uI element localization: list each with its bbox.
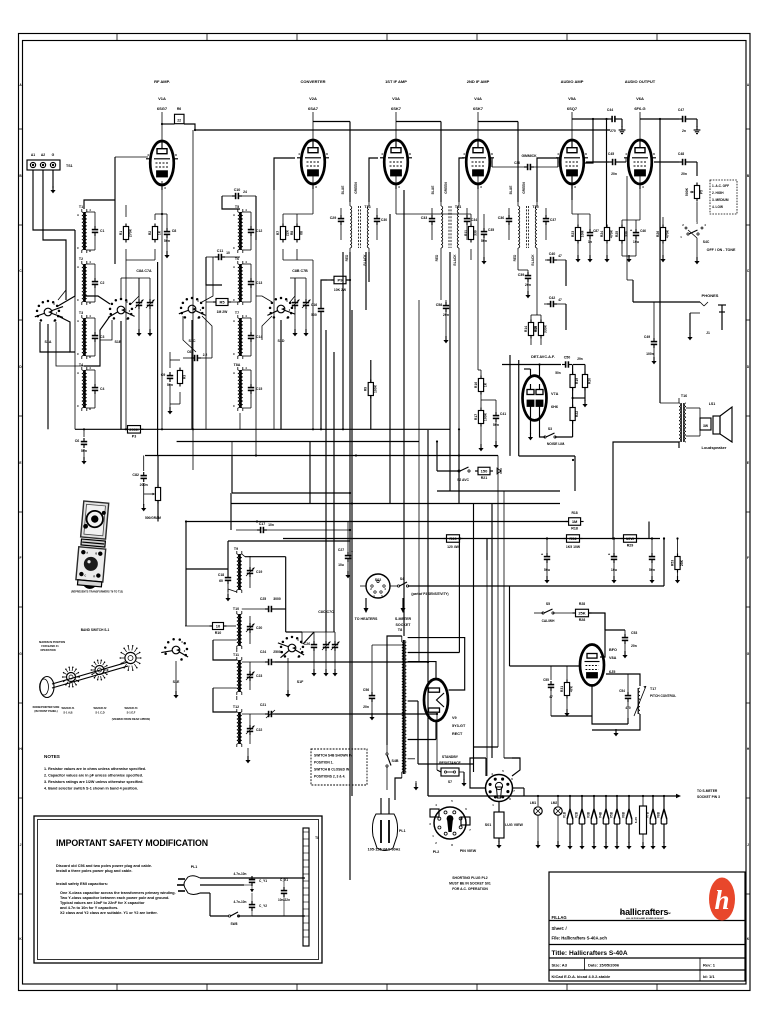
shorting plug PL2 (pin view) bbox=[429, 799, 476, 854]
svg-text:C53: C53 bbox=[631, 631, 637, 635]
svg-text:T5: T5 bbox=[235, 205, 239, 209]
capacitor C61 (filter) bbox=[608, 539, 617, 584]
svg-text:150: 150 bbox=[481, 469, 488, 474]
wire C45 coupling bbox=[619, 158, 626, 162]
svg-text:V6A: V6A bbox=[636, 96, 644, 101]
wire T1 top to grid line bbox=[84, 200, 115, 264]
wire T8 primary legs bbox=[387, 636, 402, 800]
svg-text:C: C bbox=[77, 352, 79, 356]
svg-text:1K: 1K bbox=[484, 382, 488, 387]
svg-text:T11: T11 bbox=[233, 653, 239, 657]
svg-text:BLUE: BLUE bbox=[341, 186, 345, 195]
svg-text:200K: 200K bbox=[129, 427, 139, 432]
svg-text:NOISE LIM.: NOISE LIM. bbox=[547, 442, 565, 446]
svg-text:C12: C12 bbox=[256, 229, 262, 233]
svg-text:PIN VIEW: PIN VIEW bbox=[460, 849, 477, 853]
wire T14 secondary to V4 grid bbox=[459, 158, 464, 202]
wire S1A extra arms bbox=[40, 290, 84, 366]
wire T16 primary bbox=[613, 403, 679, 539]
potentiometer P2 (sensitivity) bbox=[145, 470, 161, 520]
svg-text:A: A bbox=[77, 371, 79, 375]
terminal strip TS1 (antenna terminals A1 A2 G) bbox=[27, 153, 73, 170]
junction dots on B+ bus bbox=[458, 537, 678, 539]
transformer T3 bbox=[77, 311, 91, 359]
resistor R14 bbox=[524, 320, 538, 339]
variable inductor T17 pitch control bbox=[634, 686, 676, 716]
wire T14 down legs bbox=[441, 252, 459, 429]
capacitor C41 bbox=[493, 412, 506, 448]
capacitor C29 (T13 primary) bbox=[330, 208, 344, 240]
svg-text:RED: RED bbox=[435, 254, 439, 261]
transformer T2 bbox=[77, 257, 91, 305]
IF transformer T14 bbox=[431, 182, 461, 266]
ground under T9 bbox=[225, 589, 236, 601]
transformer T8A bbox=[233, 363, 247, 411]
wire V2 plate top route to T13 bbox=[313, 122, 350, 203]
wire S01 connections bbox=[470, 758, 524, 848]
svg-text:5Y3-GT: 5Y3-GT bbox=[452, 724, 466, 728]
svg-text:R8: R8 bbox=[290, 231, 294, 235]
IF transformer T13 bbox=[341, 182, 371, 266]
capacitor C39 bbox=[518, 270, 531, 298]
oscillator coil T9 bbox=[234, 547, 286, 609]
svg-text:BLACK: BLACK bbox=[531, 254, 535, 266]
svg-text:C56: C56 bbox=[363, 688, 369, 692]
svg-text:1M: 1M bbox=[572, 519, 578, 524]
svg-text:R29: R29 bbox=[627, 544, 634, 548]
capacitor C55 bbox=[543, 666, 554, 716]
tube V7A 6H6 detector bbox=[523, 355, 559, 420]
svg-text:R18: R18 bbox=[571, 527, 578, 531]
svg-text:R7: R7 bbox=[276, 231, 280, 235]
standby resistance S7 bbox=[439, 755, 461, 784]
svg-text:GIMMICK: GIMMICK bbox=[521, 154, 537, 158]
svg-text:C14: C14 bbox=[256, 335, 262, 339]
ground S4C bbox=[694, 238, 699, 264]
junction dots on heater bus bbox=[537, 795, 665, 797]
svg-text:Id: 1/1: Id: 1/1 bbox=[703, 974, 715, 979]
resistor R8 bbox=[290, 224, 304, 243]
svg-text:T8: T8 bbox=[398, 628, 402, 632]
resistor R17 bbox=[474, 408, 488, 427]
svg-text:R18: R18 bbox=[571, 511, 577, 515]
capacitor C3 bbox=[87, 318, 105, 356]
svg-text:V2B: V2B bbox=[575, 811, 579, 818]
svg-text:2n: 2n bbox=[682, 129, 686, 133]
svg-text:RED: RED bbox=[513, 254, 517, 261]
wire C10 left leg bbox=[222, 196, 256, 240]
trimmer capacitor C22 bbox=[246, 714, 262, 744]
svg-text:C87: C87 bbox=[593, 229, 599, 233]
svg-text:2. HIGH: 2. HIGH bbox=[712, 191, 724, 195]
safety mod transformer bar T8 bbox=[303, 828, 319, 946]
wire V3 cathode bbox=[396, 176, 484, 260]
pictorial drawing of IF transformer assembly bbox=[71, 501, 123, 594]
gimmick capacitor C38 bbox=[492, 154, 558, 170]
capacitor C46 bbox=[622, 228, 646, 263]
wire BFO tank bbox=[592, 674, 640, 736]
svg-text:C: C bbox=[233, 298, 235, 302]
wire C9/R3 to V1 grid return bbox=[115, 157, 170, 360]
trimmer capacitor C8A bbox=[135, 278, 144, 336]
svg-text:PHONES: PHONES bbox=[702, 293, 719, 298]
resistor R25 bbox=[615, 225, 629, 257]
wire rectifier cathode to B+ riser bbox=[408, 539, 459, 653]
svg-text:T14: T14 bbox=[455, 205, 461, 209]
svg-text:C45: C45 bbox=[608, 152, 614, 156]
capacitor C12 bbox=[243, 212, 263, 250]
wire R2/C8 to cathode bbox=[155, 181, 167, 228]
svg-text:J1: J1 bbox=[706, 331, 710, 335]
svg-text:T1: T1 bbox=[79, 205, 83, 209]
wire V9 filament winding bbox=[408, 722, 436, 740]
svg-text:TO S-METER: TO S-METER bbox=[697, 789, 718, 793]
svg-text:C20: C20 bbox=[256, 626, 262, 630]
svg-text:F: F bbox=[747, 556, 749, 560]
svg-text:J: J bbox=[20, 843, 22, 847]
wire V6 plate to output transformer bbox=[659, 118, 661, 403]
wire R10 to bus bbox=[185, 522, 236, 627]
svg-text:C15: C15 bbox=[256, 387, 262, 391]
svg-text:R53: R53 bbox=[670, 560, 674, 566]
svg-text:C42: C42 bbox=[549, 296, 556, 300]
capacitor C82 bbox=[132, 456, 147, 512]
svg-text:A: A bbox=[233, 371, 235, 375]
svg-text:WAFER #1: WAFER #1 bbox=[62, 706, 76, 710]
svg-text:3000: 3000 bbox=[273, 597, 281, 601]
label C8B C7B bbox=[292, 269, 308, 273]
phones jack J1 bbox=[700, 293, 726, 335]
capacitor C58 bbox=[436, 300, 449, 343]
svg-text:Typical values are 10nF to 22n: Typical values are 10nF to 22nF for X ca… bbox=[60, 901, 145, 905]
svg-text:2500: 2500 bbox=[273, 650, 281, 654]
svg-text:E: E bbox=[19, 461, 21, 465]
svg-text:6.3V: 6.3V bbox=[634, 817, 638, 823]
rotary switch S1A bbox=[35, 300, 63, 344]
svg-text:C18: C18 bbox=[218, 573, 224, 577]
svg-text:T6: T6 bbox=[235, 257, 239, 261]
wire det divider bbox=[572, 388, 586, 407]
trimmer capacitor C23 bbox=[246, 662, 262, 690]
wire R28 to C53/V8 bbox=[589, 613, 626, 630]
svg-text:SWITCH B CLOSED IN: SWITCH B CLOSED IN bbox=[314, 768, 350, 772]
mains plug PL1 bbox=[368, 798, 406, 852]
wire V8 plate bbox=[600, 613, 605, 657]
capacitor C2 bbox=[87, 264, 105, 302]
svg-text:S1F: S1F bbox=[297, 680, 304, 684]
svg-text:GREEN: GREEN bbox=[522, 182, 526, 194]
svg-text:V9: V9 bbox=[452, 716, 457, 720]
svg-text:C46: C46 bbox=[640, 229, 646, 233]
svg-text:R20: R20 bbox=[588, 378, 592, 384]
wire T13 red lead down bbox=[342, 252, 344, 430]
svg-text:3. Resistors ratings are 1/2W: 3. Resistors ratings are 1/2W unless oth… bbox=[44, 780, 143, 784]
wire V9 plate 2 to T8 tap bbox=[408, 662, 436, 679]
capacitor C45 bbox=[608, 152, 619, 176]
wire long verticals to osc caps bbox=[326, 214, 390, 632]
svg-text:BLACK: BLACK bbox=[453, 254, 457, 266]
svg-text:T7: T7 bbox=[235, 311, 239, 315]
svg-text:AUDIO AMP: AUDIO AMP bbox=[561, 79, 584, 84]
ground detector bbox=[528, 412, 533, 440]
svg-text:WAFER #2: WAFER #2 bbox=[94, 706, 108, 710]
output transformer T16 bbox=[679, 394, 696, 448]
svg-text:GREEN: GREEN bbox=[354, 182, 358, 194]
svg-text:C3: C3 bbox=[100, 335, 104, 339]
transformer T1 bbox=[77, 205, 91, 253]
capacitor C13 bbox=[243, 264, 263, 302]
svg-text:KNOB/POINTER SIDE: KNOB/POINTER SIDE bbox=[33, 705, 60, 709]
resistor R5 bbox=[213, 299, 231, 315]
important safety modification box bbox=[34, 816, 322, 963]
potentiometer P3 200K on AVC bus bbox=[125, 426, 144, 439]
svg-text:V7B: V7B bbox=[646, 811, 650, 818]
title block bbox=[549, 872, 745, 981]
svg-text:500K: 500K bbox=[685, 187, 689, 196]
wire detector couplings bbox=[565, 260, 567, 330]
svg-text:File: Hallicrafters S-40A.sch: File: Hallicrafters S-40A.sch bbox=[552, 936, 608, 941]
svg-text:OPERATION: OPERATION bbox=[40, 648, 55, 652]
wire S1B to T-coil column bbox=[84, 296, 110, 366]
capacitor C24 2500 bbox=[242, 650, 428, 665]
svg-text:C41: C41 bbox=[500, 412, 506, 416]
svg-text:Size: A3: Size: A3 bbox=[552, 963, 568, 968]
svg-text:POSITION 1.: POSITION 1. bbox=[314, 761, 334, 765]
svg-text:FILLAG: FILLAG bbox=[552, 915, 567, 920]
wire S01 to lamp bus bbox=[523, 788, 525, 796]
svg-text:inc: inc bbox=[667, 911, 671, 915]
svg-text:TO HEATERS: TO HEATERS bbox=[355, 617, 378, 621]
svg-text:100n: 100n bbox=[646, 352, 654, 356]
svg-text:V7A: V7A bbox=[551, 392, 559, 396]
resistor R29 on B+ bus bbox=[621, 535, 640, 548]
svg-text:SOCKET: SOCKET bbox=[396, 623, 412, 627]
ground T8 centertap bbox=[413, 781, 418, 790]
svg-text:CAL/WH: CAL/WH bbox=[542, 619, 555, 623]
safety mod capacitor C_X1 bbox=[278, 878, 290, 916]
svg-text:2ND IF AMP: 2ND IF AMP bbox=[467, 79, 490, 84]
wire right-side verticals bbox=[627, 176, 649, 539]
svg-text:T3: T3 bbox=[79, 311, 83, 315]
svg-text:FOR A.C. OPERATION: FOR A.C. OPERATION bbox=[452, 887, 488, 891]
svg-text:C54: C54 bbox=[619, 689, 625, 693]
junction dots mid buses bbox=[349, 428, 460, 715]
dial lamp LM2 bbox=[551, 796, 562, 848]
capacitor C9 bbox=[161, 360, 174, 414]
svg-text:R10: R10 bbox=[215, 631, 222, 635]
svg-text:S-1 A,B: S-1 A,B bbox=[63, 711, 72, 715]
svg-text:R5: R5 bbox=[219, 300, 225, 305]
resistor R28 bbox=[573, 602, 592, 622]
dial lamp LM1 bbox=[530, 796, 542, 848]
svg-text:BAND SWITCH S-1: BAND SWITCH S-1 bbox=[81, 628, 110, 632]
svg-text:LM1: LM1 bbox=[530, 801, 537, 805]
capacitor C8 bbox=[164, 228, 177, 258]
rotary switch S1C bbox=[179, 297, 206, 343]
svg-text:h: h bbox=[714, 885, 729, 915]
svg-text:470K: 470K bbox=[610, 229, 614, 238]
svg-text:R31: R31 bbox=[560, 686, 564, 692]
heater V5B bbox=[610, 796, 620, 849]
svg-text:RESISTANCE: RESISTANCE bbox=[439, 761, 461, 765]
resistor R24 bbox=[600, 225, 614, 263]
wire P9 left leg bbox=[321, 280, 327, 290]
transformer T6 bbox=[233, 257, 247, 305]
wire S1D extra arms bbox=[256, 278, 295, 340]
svg-text:T8A: T8A bbox=[234, 363, 241, 367]
svg-text:One X-class capacitor across t: One X-class capacitor across the transfo… bbox=[60, 891, 176, 895]
resistor R6 (plate decoupling) bbox=[175, 107, 185, 124]
svg-text:C: C bbox=[77, 246, 79, 250]
resistor R19 bbox=[570, 365, 579, 391]
svg-text:R26: R26 bbox=[656, 231, 660, 237]
svg-text:10: 10 bbox=[226, 251, 230, 255]
capacitor C10 bbox=[222, 188, 256, 199]
svg-text:Two Y-class capacitor between: Two Y-class capacitor between each power… bbox=[60, 896, 169, 900]
label C8C C7C bbox=[318, 610, 334, 614]
svg-text:1M 2W: 1M 2W bbox=[217, 310, 229, 314]
resistor R23 (V5 grid) bbox=[571, 225, 585, 244]
svg-text:RF AMP.: RF AMP. bbox=[154, 79, 170, 84]
svg-text:MUST BE IN SOCKET S01: MUST BE IN SOCKET S01 bbox=[449, 882, 491, 886]
svg-text:6SA7: 6SA7 bbox=[308, 106, 319, 111]
svg-text:1. A.C. OFF: 1. A.C. OFF bbox=[712, 184, 729, 188]
capacitor C37 bbox=[543, 208, 556, 240]
wire left verticals to buses bbox=[232, 240, 256, 456]
legend box positions (A.C. OFF / HIGH / MEDIUM / LOW) bbox=[710, 180, 737, 214]
svg-text:T17: T17 bbox=[650, 687, 656, 691]
wire antenna A1 down bbox=[33, 170, 75, 230]
svg-text:60: 60 bbox=[219, 579, 223, 583]
svg-text:A: A bbox=[77, 319, 79, 323]
svg-text:J: J bbox=[747, 843, 749, 847]
svg-text:S01: S01 bbox=[485, 823, 491, 827]
svg-text:WAFER #3: WAFER #3 bbox=[125, 706, 139, 710]
svg-text:BLUE: BLUE bbox=[509, 186, 513, 195]
tube V6A 6F6-G (AUDIO OUTPUT) bbox=[624, 79, 656, 189]
tube V1A 6SG7 (RF AMP.) bbox=[146, 79, 178, 190]
svg-text:29n: 29n bbox=[577, 357, 583, 361]
svg-text:A: A bbox=[77, 265, 79, 269]
resistor R7 (converter grid) bbox=[276, 224, 290, 243]
bus AVC line (long horizontal) bbox=[75, 296, 450, 429]
resistor R30 on B+ bus bbox=[444, 535, 463, 549]
svg-text:C: C bbox=[233, 352, 235, 356]
svg-text:the: the bbox=[620, 911, 624, 915]
svg-text:50n: 50n bbox=[555, 371, 561, 375]
svg-text:R24: R24 bbox=[600, 231, 604, 237]
svg-text:(REPRESENTS TRANSFORMERS T9 TO: (REPRESENTS TRANSFORMERS T9 TO T12) bbox=[71, 591, 123, 594]
svg-text:LUG VIEW: LUG VIEW bbox=[505, 823, 523, 827]
svg-text:BFO: BFO bbox=[609, 648, 617, 652]
power transformer T8 bbox=[398, 628, 415, 778]
wire V5 cathode bbox=[572, 176, 590, 262]
arrow S-METER SOCKET bbox=[395, 598, 412, 627]
svg-text:C33: C33 bbox=[421, 216, 428, 220]
svg-text:2.2: 2.2 bbox=[203, 353, 208, 357]
svg-text:S-1 E,F: S-1 E,F bbox=[127, 711, 136, 715]
svg-text:X2 class and Y2 class are suit: X2 class and Y2 class are suitable. Y1 o… bbox=[60, 911, 158, 915]
svg-text:120 4W: 120 4W bbox=[447, 545, 459, 549]
heater V3B bbox=[587, 796, 597, 849]
svg-text:PL1: PL1 bbox=[399, 829, 406, 833]
svg-text:R52: R52 bbox=[569, 536, 577, 541]
svg-text:100K: 100K bbox=[484, 412, 488, 421]
svg-text:C37: C37 bbox=[550, 218, 556, 222]
capacitor C26 bank bbox=[304, 632, 317, 676]
capacitor C40 (to detector) bbox=[545, 252, 566, 263]
svg-text:T10: T10 bbox=[233, 607, 239, 611]
bus line 2 bbox=[177, 441, 419, 443]
capacitor C62 (filter) bbox=[649, 539, 655, 584]
wire S4 to right bbox=[408, 537, 665, 586]
svg-text:PL1: PL1 bbox=[191, 865, 198, 869]
svg-text:1K5 10W: 1K5 10W bbox=[566, 545, 581, 549]
svg-text:STANDBY: STANDBY bbox=[442, 755, 459, 759]
svg-text:S3: S3 bbox=[548, 427, 552, 431]
svg-text:C55: C55 bbox=[543, 678, 549, 682]
svg-text:6SG7: 6SG7 bbox=[157, 106, 168, 111]
svg-text:6SK7: 6SK7 bbox=[391, 106, 402, 111]
capacitor C42 bbox=[544, 296, 566, 307]
heater V4B bbox=[599, 796, 609, 849]
trimmer capacitor C8B bbox=[291, 278, 300, 336]
svg-text:6SQ7: 6SQ7 bbox=[567, 106, 578, 111]
rotary switch S1B bbox=[108, 298, 135, 344]
svg-text:AUDIO OUTPUT: AUDIO OUTPUT bbox=[625, 79, 656, 84]
svg-text:105-125 VAC 60Hz: 105-125 VAC 60Hz bbox=[368, 848, 401, 852]
svg-text:C19: C19 bbox=[256, 570, 262, 574]
tube V9 5Y3-GT rectifier bbox=[424, 679, 466, 736]
wire BFO grid bus bbox=[510, 586, 581, 666]
svg-text:100K: 100K bbox=[373, 384, 377, 393]
svg-text:3W: 3W bbox=[703, 424, 709, 428]
svg-text:C44: C44 bbox=[607, 108, 613, 112]
svg-text:C10: C10 bbox=[234, 188, 241, 192]
svg-text:R2: R2 bbox=[148, 231, 152, 235]
rotary switch S1F bbox=[278, 636, 304, 697]
switch S5 BFO on/off bbox=[534, 602, 575, 623]
wire antenna A2 down bbox=[43, 170, 66, 300]
resistor R22 bbox=[570, 405, 579, 424]
svg-text:C58: C58 bbox=[436, 303, 443, 307]
top B+ bus wire bbox=[195, 129, 610, 131]
safety mod capacitor C_Y2 bbox=[234, 893, 268, 916]
trimmer capacitor C19 bbox=[246, 556, 262, 588]
wire S1B drop to AVC bus bbox=[120, 321, 122, 429]
svg-text:1ST IF AMP: 1ST IF AMP bbox=[385, 79, 407, 84]
capacitor C34 bbox=[464, 208, 477, 240]
wire det bottom bus bbox=[519, 456, 575, 491]
svg-text:C6: C6 bbox=[75, 439, 80, 443]
resistor R11 bbox=[464, 224, 478, 243]
capacitor C50 (det) bbox=[502, 356, 585, 376]
arrow TO HEATERS bbox=[355, 598, 378, 621]
svg-text:4.7n-10n: 4.7n-10n bbox=[234, 872, 247, 876]
svg-text:LS1: LS1 bbox=[709, 402, 716, 406]
svg-text:20n: 20n bbox=[681, 172, 687, 176]
svg-text:A1: A1 bbox=[31, 153, 35, 157]
svg-text:R28: R28 bbox=[579, 602, 585, 606]
svg-text:S7: S7 bbox=[448, 780, 452, 784]
wire R5 leads bbox=[206, 301, 240, 303]
svg-text:V1A: V1A bbox=[158, 96, 166, 101]
capacitor C56 bbox=[363, 645, 402, 720]
svg-text:10: 10 bbox=[216, 624, 221, 629]
wire S2 branch bbox=[437, 441, 459, 471]
svg-text:20n: 20n bbox=[363, 705, 369, 709]
svg-text:6SK7: 6SK7 bbox=[473, 106, 484, 111]
